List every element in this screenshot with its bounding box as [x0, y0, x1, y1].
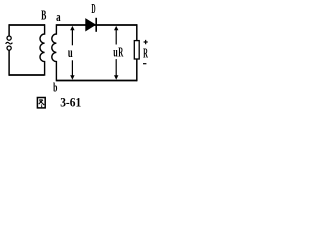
terminal circle top	[7, 36, 11, 40]
wire secondary top	[56, 24, 136, 26]
svg-text:u: u	[113, 46, 118, 61]
AC source tilde	[6, 42, 13, 44]
svg-text:b: b	[53, 80, 57, 95]
wire primary bottom	[9, 74, 44, 76]
voltage uR arrow down	[115, 59, 117, 77]
svg-text:a: a	[56, 9, 61, 24]
svg-text:B: B	[41, 9, 46, 24]
wire right vertical lower	[136, 59, 138, 81]
voltage u arrow up	[71, 28, 73, 45]
svg-text:R: R	[118, 45, 123, 60]
terminal circle bottom	[7, 46, 11, 50]
wire left vertical lower	[8, 50, 10, 75]
voltage uR arrow up	[115, 28, 117, 45]
svg-text:3-61: 3-61	[60, 95, 81, 110]
transformer secondary winding	[52, 24, 57, 81]
wire secondary bottom	[56, 80, 136, 82]
label + polarity	[144, 40, 148, 44]
wire right vertical upper	[136, 24, 138, 41]
resistor R body	[134, 41, 139, 59]
wire left vertical upper	[8, 24, 10, 36]
caption glyph 图	[37, 98, 45, 108]
svg-text:R: R	[143, 45, 148, 60]
diode D	[86, 19, 96, 31]
voltage u arrow down	[71, 60, 73, 77]
wire primary top	[9, 24, 45, 26]
label - polarity	[143, 63, 146, 65]
svg-text:D: D	[91, 1, 95, 16]
svg-text:u: u	[68, 46, 73, 61]
transformer primary winding	[40, 24, 45, 76]
